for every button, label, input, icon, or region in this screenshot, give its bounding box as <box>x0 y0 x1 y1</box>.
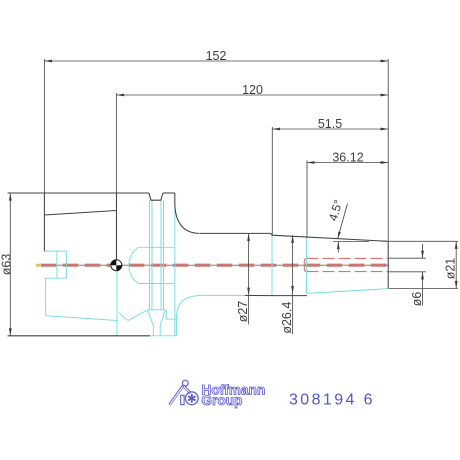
arrow dia63 bottom <box>9 328 12 336</box>
logo head <box>182 380 188 386</box>
flange face edge <box>116 193 118 265</box>
lower cove hidden <box>176 295 203 319</box>
arrow 152 right <box>381 60 389 63</box>
ext dia6 top <box>389 257 426 259</box>
logo wheel <box>185 392 198 405</box>
flange hidden vertical <box>116 265 118 336</box>
angle ref line <box>333 241 369 243</box>
ext dia21 top <box>389 240 458 242</box>
arrow 152 left <box>44 60 52 63</box>
svg-text:120: 120 <box>242 83 263 97</box>
angle lower tick <box>337 242 339 253</box>
svg-text:152: 152 <box>206 49 227 63</box>
hidden lines cyan group <box>44 200 388 335</box>
lower mid bottom <box>272 295 307 297</box>
arrow dia26.4 top <box>291 235 294 243</box>
arrow dia27 bottom <box>247 288 250 296</box>
logo leg <box>181 395 184 404</box>
ext 51.5 <box>271 127 273 235</box>
end face <box>387 241 389 288</box>
body outline black group <box>8 193 389 336</box>
collet right wing <box>166 310 176 336</box>
flange bottom hidden <box>150 335 176 337</box>
svg-text:ø26.4: ø26.4 <box>280 302 294 334</box>
arrowheads <box>9 60 458 336</box>
collet arc <box>129 247 139 283</box>
front face <box>43 193 45 251</box>
dim 152 line <box>44 60 388 62</box>
dimension lines <box>10 59 458 336</box>
dim 120 line <box>117 94 389 96</box>
logo body <box>170 386 184 405</box>
svg-text:36.12: 36.12 <box>332 151 363 165</box>
arrow 120 right <box>381 94 389 97</box>
svg-text:ø21: ø21 <box>444 258 458 280</box>
dim dia6 upper <box>422 244 424 258</box>
arrow dia26.4 bottom <box>291 286 294 294</box>
arrow 36.12 right <box>381 161 389 164</box>
arrow 51.5 left <box>272 128 280 131</box>
groove <box>149 193 163 200</box>
shank taper top <box>44 211 116 216</box>
svg-text:51.5: 51.5 <box>318 117 342 131</box>
centerline red dashes <box>41 264 389 267</box>
groove hidden verticals <box>149 200 151 309</box>
funnel left <box>148 310 154 336</box>
cylinder bottom <box>245 294 272 296</box>
arrow angle upper <box>338 232 341 240</box>
flange top <box>163 192 175 194</box>
dim dia26.4 line <box>292 235 294 334</box>
collet top line <box>139 246 175 248</box>
svg-text:ø63: ø63 <box>0 254 14 276</box>
collet seat horizontal <box>148 309 166 311</box>
ext dia6 bottom <box>389 271 426 273</box>
svg-text:4.5°: 4.5° <box>326 198 346 223</box>
arrow 36.12 left <box>307 161 315 164</box>
ball symbol <box>111 260 122 271</box>
collet bottom line <box>139 283 175 285</box>
shank top silhouette <box>8 192 149 194</box>
logo gear star <box>188 394 196 403</box>
dim 36.12 line <box>307 162 388 164</box>
svg-text:ø27: ø27 <box>236 301 250 323</box>
flange right hidden vertical <box>174 208 176 336</box>
dim 51.5 line <box>272 128 388 130</box>
wire centerline thin <box>43 264 389 266</box>
arrow dia63 top <box>9 193 12 201</box>
angle leader <box>338 204 348 240</box>
arrow dia6 bottom <box>421 272 424 280</box>
ext 152 left <box>43 59 45 193</box>
lower body hidden line <box>203 294 245 296</box>
lower taper hidden <box>46 316 117 321</box>
cylinder top <box>200 232 271 234</box>
arrow dia6 top <box>421 251 424 259</box>
centerline yellow tick <box>36 264 40 267</box>
funnel right <box>160 310 165 336</box>
dim dia6 lower <box>422 272 424 306</box>
ext dia21 bottom <box>389 288 458 290</box>
hoffmann logo pictogram <box>170 380 199 405</box>
arrow dia21 top <box>455 241 458 249</box>
ext 36.12 <box>306 161 308 239</box>
coolant bore red outline <box>304 258 388 271</box>
flange bottom <box>8 335 151 337</box>
collet left wing <box>119 310 148 321</box>
bore box front face <box>44 250 66 252</box>
svg-text:Group: Group <box>202 393 243 408</box>
logo arm <box>183 386 190 394</box>
dim dia27 line <box>248 233 250 324</box>
lower-left face <box>45 278 47 316</box>
step <box>270 233 273 235</box>
arrow 51.5 right <box>381 128 389 131</box>
svg-text:308194 6: 308194 6 <box>289 392 375 409</box>
dimension texts <box>0 49 458 334</box>
arrow angle lower <box>337 242 340 250</box>
hoffmann logo text <box>202 382 266 408</box>
step face hidden <box>271 235 273 295</box>
taper top <box>272 235 388 241</box>
collet nose face hidden <box>306 238 308 294</box>
arrow 120 left <box>117 94 125 97</box>
lower taper hidden line <box>307 289 388 294</box>
ext right end <box>387 59 389 241</box>
arrow dia21 bottom <box>455 281 458 289</box>
arrow dia27 top <box>247 233 250 241</box>
dim dia21 line <box>455 241 457 288</box>
cove fillet <box>175 193 200 233</box>
ext 120 <box>116 93 118 193</box>
svg-text:ø6: ø6 <box>410 292 424 307</box>
dim dia63 line <box>9 193 11 336</box>
